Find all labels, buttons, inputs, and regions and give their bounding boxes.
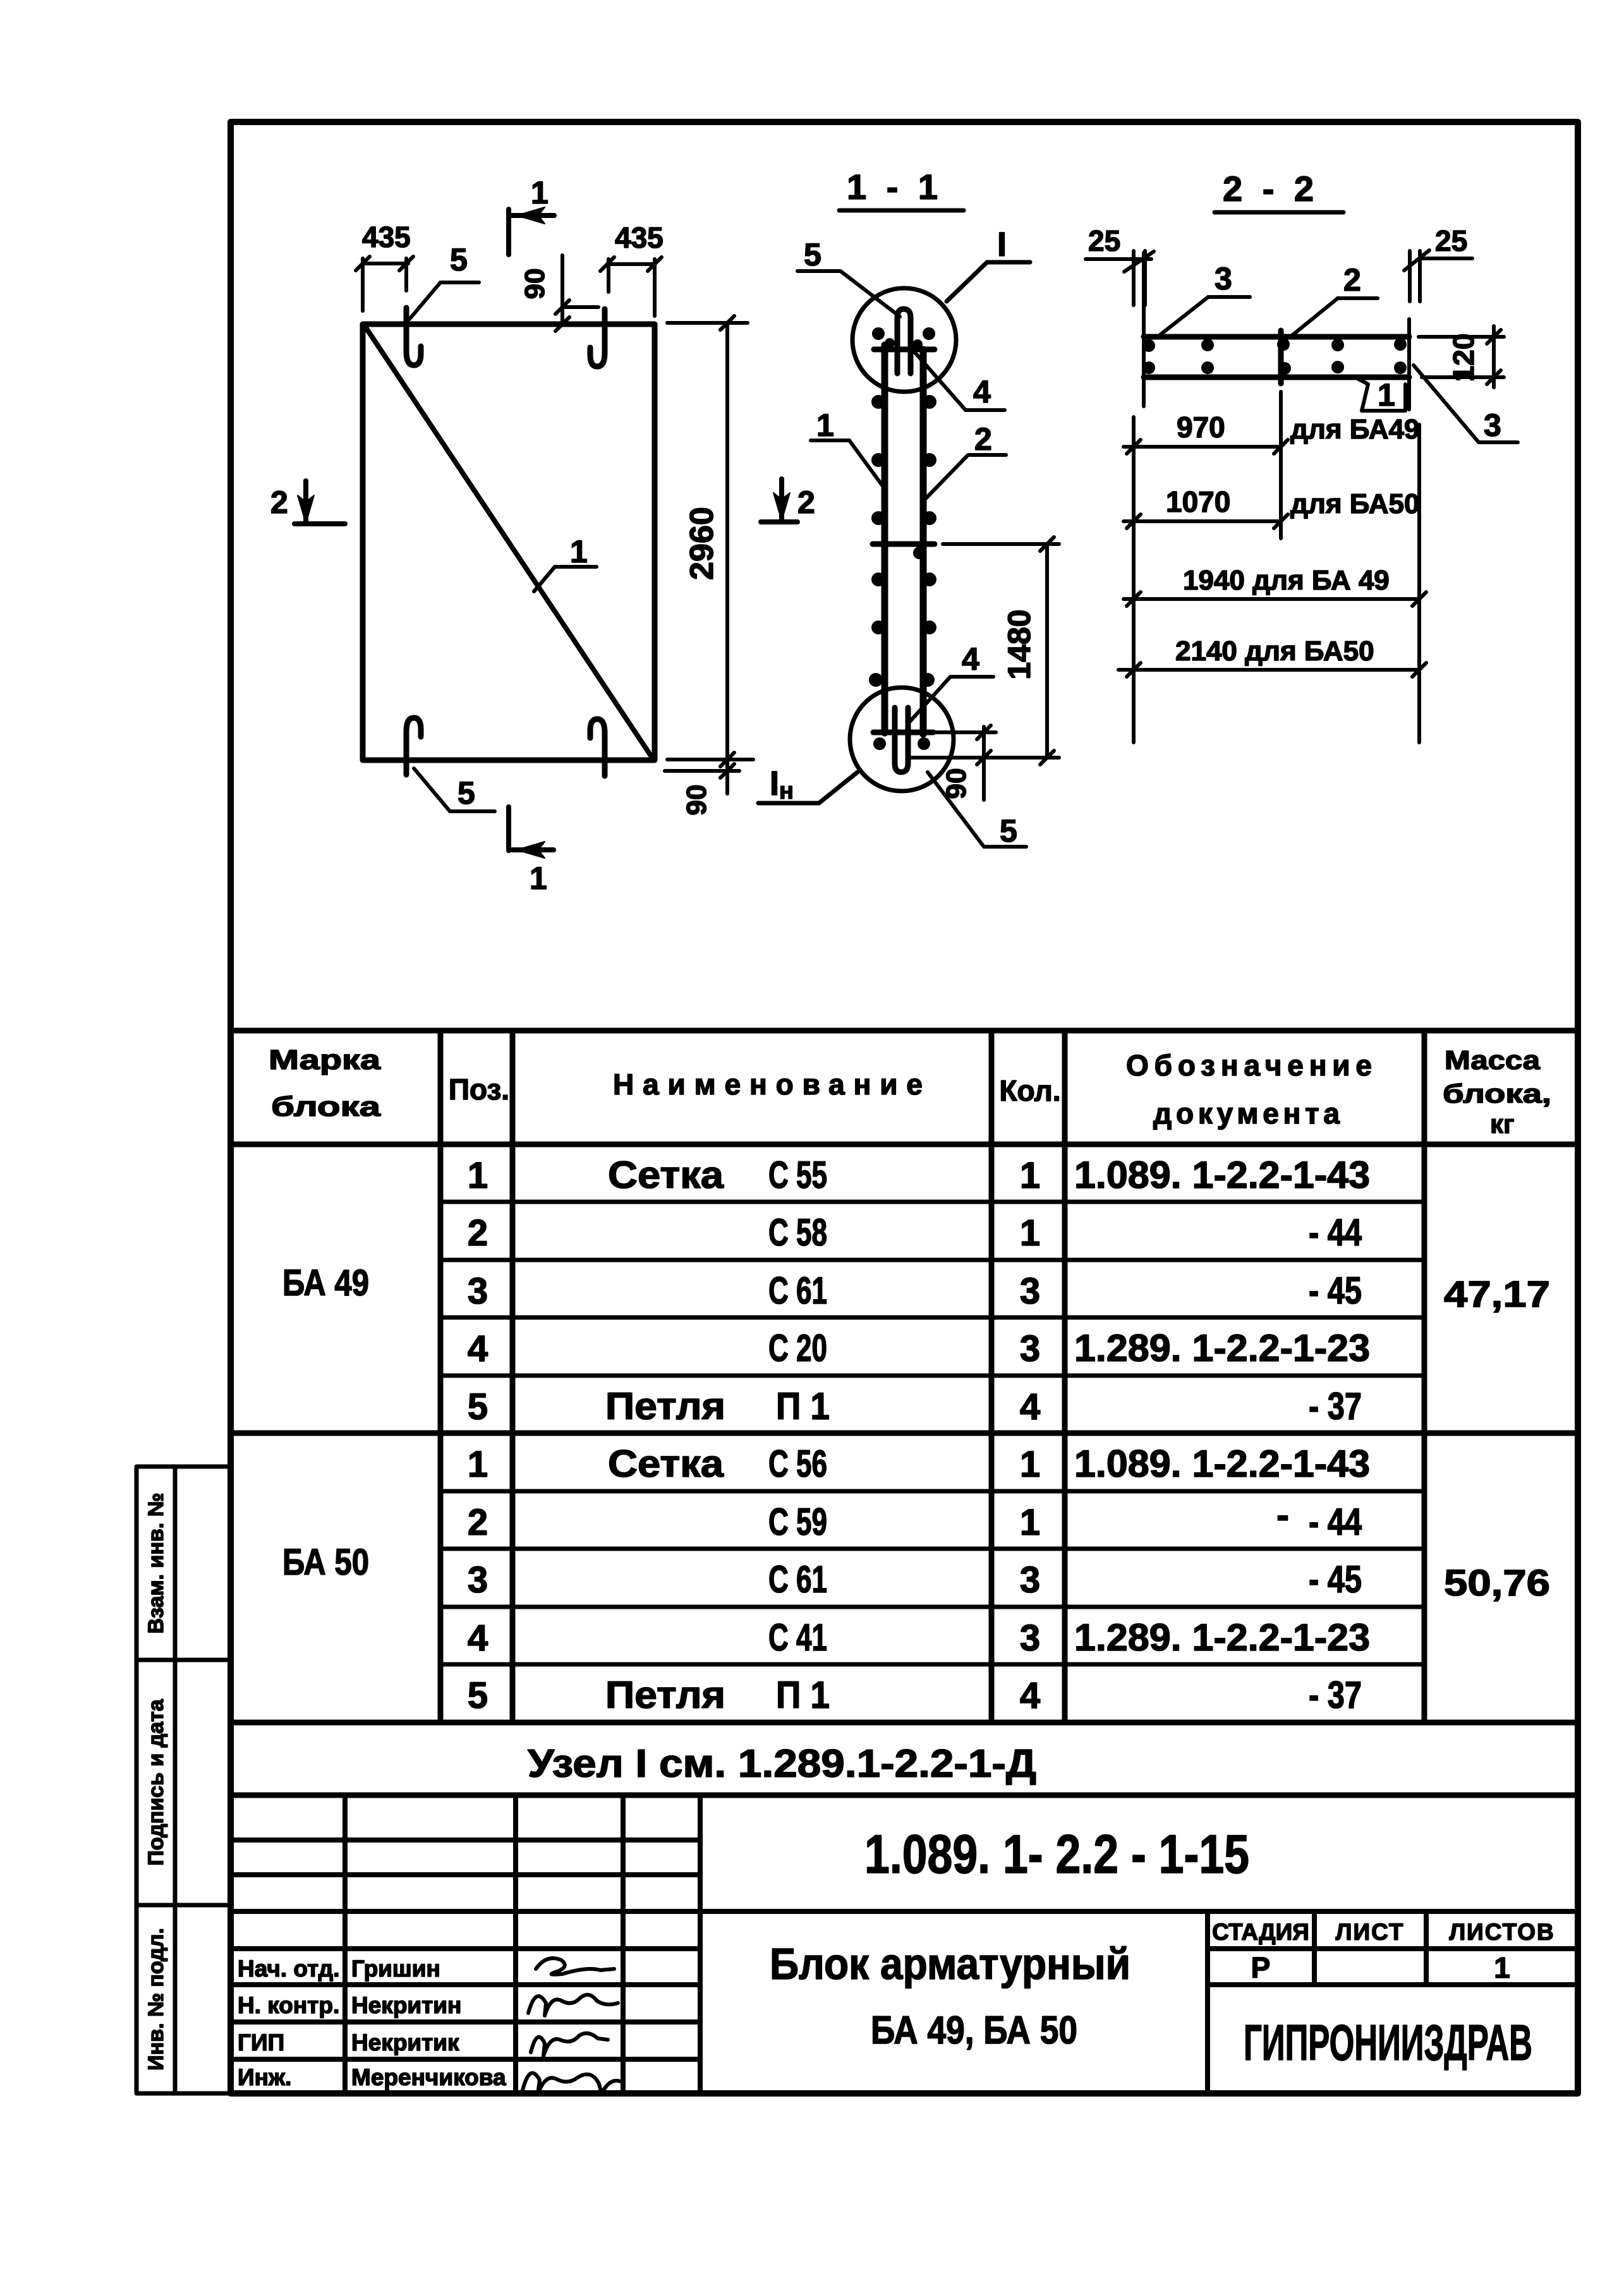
loop П1 top-right (поз.5) <box>590 309 605 366</box>
svg-text:С 20: С 20 <box>768 1327 827 1369</box>
svg-text:Наименование: Наименование <box>613 1068 923 1101</box>
svg-text:2 - 2: 2 - 2 <box>1223 169 1319 209</box>
svg-text:4: 4 <box>1020 1386 1040 1427</box>
svg-text:2960: 2960 <box>684 507 720 580</box>
svg-text:Подпись и дата: Подпись и дата <box>144 1698 168 1866</box>
svg-text:ЛИСТОВ: ЛИСТОВ <box>1449 1919 1555 1945</box>
кол numbers <box>1020 1155 1040 1716</box>
loop П1 bottom-left (поз.5) <box>406 718 421 775</box>
svg-text:4: 4 <box>962 641 979 677</box>
svg-text:1: 1 <box>1378 377 1395 413</box>
svg-text:- 37: - 37 <box>1309 1674 1362 1716</box>
svg-text:Р: Р <box>1251 1951 1271 1984</box>
svg-text:90: 90 <box>519 269 550 300</box>
svg-text:СТАДИЯ: СТАДИЯ <box>1212 1919 1309 1945</box>
svg-text:- 37: - 37 <box>1309 1385 1362 1427</box>
strip boxes <box>136 1467 231 2093</box>
svg-text:БА 49: БА 49 <box>282 1262 369 1304</box>
svg-text:25: 25 <box>1435 224 1467 257</box>
loop П1 top (поз.5) <box>897 309 911 373</box>
svg-text:Кол.: Кол. <box>999 1074 1060 1107</box>
svg-text:Петля: Петля <box>605 1674 725 1716</box>
svg-text:- 45: - 45 <box>1309 1269 1362 1312</box>
поз numbers <box>468 1155 488 1716</box>
svg-text:1: 1 <box>570 534 588 569</box>
sheet frame <box>231 122 1578 2093</box>
mesh bar right (поз.2) <box>920 349 927 734</box>
svg-text:1: 1 <box>1020 1155 1040 1196</box>
loop П1 bottom-right (поз.5) <box>590 719 605 776</box>
svg-text:Масса: Масса <box>1445 1045 1541 1075</box>
svg-text:П 1: П 1 <box>776 1385 830 1427</box>
svg-text:1: 1 <box>1020 1502 1040 1543</box>
svg-text:25: 25 <box>1088 224 1120 257</box>
svg-text:2: 2 <box>468 1502 488 1543</box>
dim 2140 для БА50 <box>1118 663 1426 677</box>
grid lines <box>231 1795 1578 2093</box>
dim 120 <box>1419 326 1504 387</box>
svg-text:Некритин: Некритин <box>351 1992 461 2018</box>
dim 435 left <box>356 257 413 311</box>
transverse bar bottom <box>873 730 933 735</box>
dim 435 right <box>600 257 662 316</box>
dim 1940 для БА 49 <box>1124 592 1426 606</box>
dim 1070 для БА50 <box>1124 514 1288 528</box>
svg-text:3: 3 <box>1020 1559 1040 1601</box>
staff column <box>238 1956 506 2090</box>
loop П1 bottom (поз.5) <box>895 708 908 772</box>
svg-text:С 58: С 58 <box>768 1211 827 1254</box>
svg-text:Нач. отд.: Нач. отд. <box>238 1956 340 1982</box>
svg-text:1070: 1070 <box>1166 485 1230 518</box>
svg-text:3: 3 <box>1215 261 1232 296</box>
svg-text:I: I <box>997 226 1007 263</box>
transverse bar top <box>874 347 935 353</box>
svg-text:4: 4 <box>468 1328 488 1369</box>
svg-text:47,17: 47,17 <box>1444 1274 1550 1315</box>
svg-text:5: 5 <box>458 775 475 811</box>
strip end extension right <box>1407 319 1411 409</box>
svg-text:1: 1 <box>1494 1951 1510 1984</box>
svg-text:С 41: С 41 <box>768 1616 827 1659</box>
svg-text:2: 2 <box>468 1213 488 1254</box>
svg-text:Меренчикова: Меренчикова <box>351 2064 506 2090</box>
svg-text:3: 3 <box>468 1271 488 1312</box>
dim 90 top (loop protrusion) <box>555 255 598 331</box>
svg-text:4: 4 <box>468 1618 488 1659</box>
strip divider (поз.2/поз.3 meshes) <box>1278 330 1284 384</box>
svg-text:5: 5 <box>450 242 468 277</box>
svg-text:Н. контр.: Н. контр. <box>238 1992 339 2018</box>
svg-text:для БА49: для БА49 <box>1290 414 1419 445</box>
svg-text:1: 1 <box>468 1155 488 1196</box>
svg-text:2140 для БА50: 2140 для БА50 <box>1175 636 1374 667</box>
svg-text:Гришин: Гришин <box>351 1956 440 1982</box>
svg-text:Некритик: Некритик <box>351 2030 459 2055</box>
section mark 2 right <box>761 479 797 522</box>
svg-text:С 61: С 61 <box>768 1558 827 1601</box>
svg-text:- 45: - 45 <box>1309 1558 1362 1601</box>
svg-text:3: 3 <box>468 1559 488 1601</box>
strip end extension left <box>1142 253 1146 406</box>
section mark 1 bottom <box>509 807 554 858</box>
svg-text:970: 970 <box>1177 411 1225 444</box>
svg-text:1: 1 <box>1020 1213 1040 1254</box>
svg-text:ЛИСТ: ЛИСТ <box>1336 1919 1405 1945</box>
svg-text:1: 1 <box>531 175 548 210</box>
section mark 1 top <box>509 207 554 255</box>
svg-text:1480: 1480 <box>1002 609 1037 679</box>
mesh bar left (поз.1) <box>882 345 888 733</box>
svg-text:3: 3 <box>1020 1328 1040 1369</box>
dim 1480 <box>910 537 1059 765</box>
detail circle Iн bottom <box>850 687 954 791</box>
svg-text:5: 5 <box>1000 813 1017 849</box>
table grid <box>231 1031 1578 1795</box>
svg-text:1940 для БА 49: 1940 для БА 49 <box>1183 565 1390 596</box>
svg-text:Сетка: Сетка <box>608 1443 724 1485</box>
svg-text:3: 3 <box>1020 1271 1040 1312</box>
svg-text:90: 90 <box>681 785 712 816</box>
svg-text:1.089. 1- 2.2 - 1-15: 1.089. 1- 2.2 - 1-15 <box>864 1824 1249 1885</box>
svg-text:3: 3 <box>1020 1618 1040 1659</box>
svg-text:-: - <box>1276 1494 1289 1536</box>
svg-text:Узел I см. 1.289.1-2.2-1-Д: Узел I см. 1.289.1-2.2-1-Д <box>528 1742 1036 1786</box>
svg-text:3: 3 <box>1484 408 1501 443</box>
transverse bar middle <box>873 542 935 547</box>
svg-text:1: 1 <box>468 1444 488 1485</box>
svg-text:5: 5 <box>468 1386 488 1427</box>
svg-text:С 61: С 61 <box>768 1269 827 1312</box>
svg-text:ГИП: ГИП <box>238 2030 284 2055</box>
svg-text:5: 5 <box>804 237 821 272</box>
svg-text:блока,: блока, <box>1443 1079 1551 1108</box>
svg-text:кг: кг <box>1490 1109 1515 1139</box>
signature Некритин <box>528 1995 618 2016</box>
svg-text:1: 1 <box>530 861 547 896</box>
header texts <box>269 1044 1551 1139</box>
rebar dots <box>869 327 936 750</box>
svg-text:4: 4 <box>1020 1675 1040 1716</box>
наименование <box>605 1154 830 1716</box>
svg-text:1: 1 <box>816 408 834 443</box>
dim 90 bottom <box>935 725 996 800</box>
svg-text:4: 4 <box>973 374 991 409</box>
svg-text:П 1: П 1 <box>776 1674 830 1716</box>
mesh C55 diagonal (поз.1) <box>365 327 652 758</box>
mesh strip outline <box>1144 334 1409 340</box>
dim 90 bottom right (loop protrusion) <box>665 760 739 794</box>
svg-text:Взам. инв. №: Взам. инв. № <box>144 1492 168 1633</box>
svg-text:- 44: - 44 <box>1309 1501 1362 1543</box>
detail circle I top <box>852 288 956 392</box>
svg-text:для БА50: для БА50 <box>1290 488 1419 519</box>
svg-text:Марка: Марка <box>269 1044 381 1075</box>
section mark 2 left <box>294 481 345 524</box>
svg-text:БА 49, БА 50: БА 49, БА 50 <box>871 2009 1077 2052</box>
svg-text:2: 2 <box>797 485 815 520</box>
svg-text:ГИПРОНИИЗДРАВ: ГИПРОНИИЗДРАВ <box>1244 2014 1532 2071</box>
svg-text:- 44: - 44 <box>1309 1211 1362 1254</box>
svg-text:1.089. 1-2.2-1-43: 1.089. 1-2.2-1-43 <box>1074 1154 1370 1196</box>
svg-text:2: 2 <box>1343 262 1361 298</box>
dim 970 для БА49 <box>1124 440 1288 454</box>
svg-text:435: 435 <box>362 221 411 253</box>
svg-text:Инж.: Инж. <box>238 2064 291 2090</box>
dots in strip <box>1142 338 1407 375</box>
svg-text:С 55: С 55 <box>768 1154 827 1196</box>
svg-text:50,76: 50,76 <box>1444 1563 1550 1604</box>
svg-text:1.089. 1-2.2-1-43: 1.089. 1-2.2-1-43 <box>1074 1443 1370 1485</box>
signature Некритик <box>531 2033 608 2056</box>
dim 2960 right <box>667 316 753 766</box>
svg-text:1.289. 1-2.2-1-23: 1.289. 1-2.2-1-23 <box>1074 1616 1370 1659</box>
svg-text:1: 1 <box>1020 1444 1040 1485</box>
svg-text:1.289. 1-2.2-1-23: 1.289. 1-2.2-1-23 <box>1074 1327 1370 1369</box>
dimension stack extension lines <box>1134 392 1419 742</box>
svg-text:2: 2 <box>270 485 288 520</box>
svg-text:5: 5 <box>468 1675 488 1716</box>
signature Гришин <box>536 1958 614 1975</box>
signature Меренчикова <box>522 2073 621 2094</box>
panel outline <box>363 324 655 760</box>
svg-text:блока: блока <box>271 1091 381 1122</box>
svg-text:2: 2 <box>974 421 992 457</box>
loop П1 top-left (поз.5) <box>406 308 421 365</box>
svg-text:Поз.: Поз. <box>449 1073 509 1106</box>
svg-text:Сетка: Сетка <box>608 1154 724 1196</box>
svg-text:БА 50: БА 50 <box>282 1542 369 1583</box>
svg-text:1 - 1: 1 - 1 <box>847 167 943 207</box>
svg-text:документа: документа <box>1153 1097 1340 1130</box>
svg-text:Инв. № подл.: Инв. № подл. <box>144 1928 168 2071</box>
svg-text:Обозначение: Обозначение <box>1126 1049 1372 1082</box>
svg-text:Iн: Iн <box>770 765 794 804</box>
svg-text:С 59: С 59 <box>768 1501 827 1543</box>
svg-text:435: 435 <box>615 221 664 254</box>
svg-text:Блок арматурный: Блок арматурный <box>770 1939 1130 1988</box>
обозначение документа <box>1074 1154 1370 1716</box>
svg-text:Петля: Петля <box>605 1385 725 1427</box>
svg-text:С 56: С 56 <box>768 1443 827 1485</box>
svg-text:120: 120 <box>1447 334 1480 382</box>
